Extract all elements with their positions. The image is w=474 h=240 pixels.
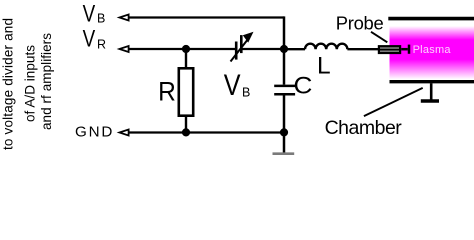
svg-text:R: R bbox=[97, 37, 106, 51]
svg-text:Probe: Probe bbox=[336, 12, 384, 33]
ground (chamber) bar bbox=[421, 99, 439, 103]
pointer line Probe bbox=[371, 32, 387, 43]
ground (chamber) stub bbox=[430, 83, 433, 99]
junction dot V_R / R bbox=[182, 45, 190, 53]
plasma region (gradient) bbox=[390, 21, 474, 80]
wire R bottom stub bbox=[185, 117, 187, 132]
capacitor C top plate bbox=[274, 85, 295, 88]
wire capacitor C to GND line bbox=[283, 95, 286, 132]
variable capacitor right plate bbox=[240, 35, 243, 53]
svg-text:V: V bbox=[83, 0, 96, 27]
svg-text:Plasma: Plasma bbox=[413, 44, 452, 56]
svg-text:V: V bbox=[224, 69, 241, 102]
inductor L (4 humps) bbox=[305, 44, 347, 50]
wire variable cap to node bbox=[243, 48, 285, 50]
wire inductor to probe bbox=[347, 48, 378, 50]
wire V_R left segment bbox=[128, 48, 236, 50]
ground (bottom, clipped gray bar) bbox=[273, 152, 295, 155]
probe tip wire bbox=[401, 48, 408, 51]
chamber bottom wall bbox=[390, 80, 474, 83]
svg-text:of A/D inputs: of A/D inputs bbox=[23, 45, 38, 122]
junction dot R-GND bbox=[182, 128, 190, 136]
junction dot main node bbox=[280, 45, 288, 53]
svg-text:L: L bbox=[317, 53, 331, 80]
svg-text:V: V bbox=[83, 26, 96, 53]
wire trunk V_B down to node bbox=[283, 16, 286, 49]
chamber top wall bbox=[388, 17, 474, 21]
capacitor C bottom plate bbox=[274, 93, 295, 96]
svg-text:B: B bbox=[242, 85, 250, 99]
wire R top stub bbox=[185, 49, 187, 67]
svg-text:to voltage divider and: to voltage divider and bbox=[1, 18, 16, 150]
probe body center line bbox=[378, 49, 401, 51]
svg-text:and rf amplifiers: and rf amplifiers bbox=[39, 33, 54, 130]
svg-text:C: C bbox=[294, 72, 313, 99]
pointer line Chamber bbox=[364, 88, 423, 116]
wire to bottom ground bbox=[283, 132, 286, 152]
probe tip bar bbox=[408, 45, 411, 54]
wire GND line bbox=[128, 131, 284, 133]
svg-text:Chamber: Chamber bbox=[325, 117, 403, 139]
variable capacitor left plate bbox=[235, 42, 238, 60]
connector arrow GND bbox=[120, 130, 129, 136]
wire node to inductor bbox=[284, 48, 305, 50]
connector arrow V_B bbox=[120, 15, 129, 21]
svg-text:B: B bbox=[97, 12, 105, 26]
probe body (sleeve) bbox=[379, 46, 400, 53]
wire V_B top bbox=[128, 16, 284, 18]
connector arrow V_R bbox=[120, 46, 129, 52]
variable capacitor arrow shaft bbox=[231, 40, 248, 62]
wire node down to capacitor C bbox=[283, 49, 286, 85]
resistor R bbox=[179, 68, 193, 115]
svg-text:GND: GND bbox=[75, 124, 114, 141]
junction dot C-GND bbox=[280, 128, 288, 136]
svg-text:R: R bbox=[158, 76, 176, 106]
variable capacitor arrow head bbox=[243, 32, 254, 43]
